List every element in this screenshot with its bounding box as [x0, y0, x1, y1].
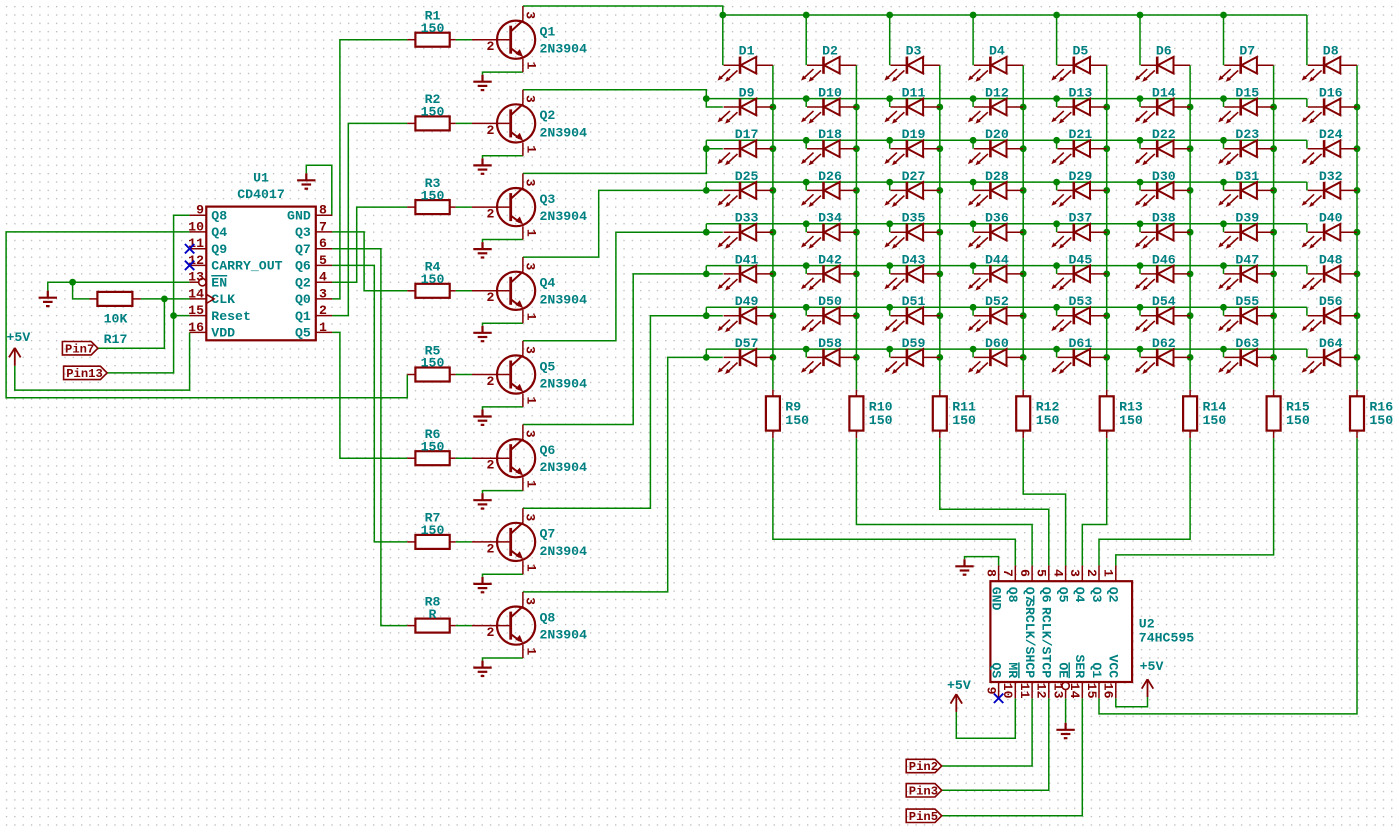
- junction column 1 row 7: [770, 312, 777, 319]
- no-connect U2 pin 9: [994, 694, 1003, 703]
- wire row 3 drop col 8: [1306, 140, 1308, 148]
- wire column drop to D5 anode row 1: [1056, 15, 1058, 65]
- U1 pin 13 (EN): [188, 270, 227, 291]
- svg-text:D30: D30: [1152, 169, 1176, 184]
- U2 pin 11 (SRCLK/SHCP): [1017, 599, 1037, 699]
- svg-text:Q4: Q4: [1072, 587, 1087, 603]
- wire row 5 drop col 4: [972, 224, 974, 232]
- LED D30: [1135, 169, 1190, 207]
- ground at Q1 emitter: [473, 75, 491, 90]
- svg-text:Q3: Q3: [1089, 587, 1104, 603]
- U2 pin 12 (RCLK/STCP): [1034, 607, 1054, 699]
- transistor Q1: [472, 6, 587, 72]
- svg-text:D29: D29: [1069, 169, 1093, 184]
- wire R5 to Q5 base: [456, 374, 472, 376]
- svg-text:150: 150: [421, 356, 445, 371]
- svg-text:14: 14: [188, 286, 204, 301]
- svg-text:Q4: Q4: [211, 225, 227, 240]
- svg-text:150: 150: [421, 439, 445, 454]
- svg-text:D44: D44: [985, 252, 1009, 267]
- wire U2 pin 10 to +5V: [956, 698, 1015, 738]
- LED D5: [1051, 44, 1106, 82]
- net label Pin2: [906, 759, 942, 774]
- svg-text:D4: D4: [989, 44, 1005, 59]
- svg-text:D33: D33: [735, 211, 759, 226]
- LED D6: [1135, 44, 1190, 82]
- svg-text:CLK: CLK: [211, 292, 235, 307]
- wire column 4 vertical to R12: [1022, 65, 1024, 390]
- svg-text:3: 3: [523, 262, 538, 270]
- svg-text:1: 1: [524, 564, 539, 572]
- svg-text:VDD: VDD: [211, 326, 235, 341]
- ground above U1: [297, 173, 315, 188]
- U2 pin 15 (Q1): [1084, 662, 1104, 698]
- svg-text:1: 1: [1101, 569, 1116, 577]
- svg-text:1: 1: [524, 229, 539, 237]
- LED D39: [1218, 211, 1273, 249]
- wire row 8 left riser: [705, 349, 707, 357]
- U1 pin 3 (Q0): [295, 286, 332, 307]
- svg-text:11: 11: [1017, 683, 1032, 699]
- svg-text:6: 6: [319, 236, 327, 251]
- svg-text:2N3904: 2N3904: [540, 125, 588, 140]
- LED D31: [1218, 169, 1273, 207]
- junction column 6 row 3: [1187, 145, 1194, 152]
- resistor R15: [1267, 390, 1310, 438]
- junction row 8 col 6: [1137, 346, 1144, 353]
- junction top bus col 1: [719, 12, 726, 19]
- svg-text:SRCLK/SHCP: SRCLK/SHCP: [1022, 599, 1037, 678]
- wire row 4 drop col 2: [805, 182, 807, 190]
- transistor Q6: [472, 425, 587, 491]
- svg-text:D55: D55: [1235, 294, 1259, 309]
- U2 pin 8 (GND): [983, 566, 1003, 611]
- ground at U2 pin 8: [955, 559, 973, 574]
- svg-text:D57: D57: [735, 336, 759, 351]
- svg-text:Q7: Q7: [540, 527, 556, 542]
- wire column 2 vertical to R10: [855, 65, 857, 390]
- LED D27: [884, 169, 939, 207]
- svg-text:1: 1: [524, 480, 539, 488]
- LED D43: [884, 252, 939, 290]
- wire row 4 drop col 5: [1056, 182, 1058, 190]
- junction row 3 col 5: [1053, 137, 1060, 144]
- junction column 8 row 2: [1354, 104, 1361, 111]
- junction column 2 row 6: [853, 271, 860, 278]
- ground at EN: [39, 291, 57, 306]
- junction row 8 col 7: [1220, 346, 1227, 353]
- svg-text:150: 150: [421, 188, 445, 203]
- svg-text:D3: D3: [906, 44, 922, 59]
- transistor Q7: [472, 508, 587, 574]
- junction row 7 col 2: [803, 304, 810, 311]
- wire top bus row 1: [723, 14, 1307, 16]
- resistor R11: [933, 390, 976, 438]
- wire row 2 drop col 6: [1139, 99, 1141, 107]
- wire Q1 emitter to ground: [483, 72, 523, 75]
- svg-text:2: 2: [486, 458, 494, 473]
- junction row 2 col 5: [1053, 95, 1060, 102]
- junction row 5 col 2: [803, 220, 810, 227]
- U2 pin 5 (Q6): [1034, 566, 1054, 603]
- junction column 4 row 5: [1020, 229, 1027, 236]
- svg-text:D48: D48: [1319, 252, 1343, 267]
- svg-text:D15: D15: [1235, 85, 1259, 100]
- wire Q5 emitter to ground: [483, 407, 523, 410]
- wire column drop to D2 anode row 1: [805, 15, 807, 65]
- svg-text:Q2: Q2: [1106, 587, 1121, 603]
- wire row 6 horizontal: [706, 265, 1307, 267]
- junction row 5 col 7: [1220, 220, 1227, 227]
- LED D50: [801, 294, 856, 332]
- wire R6 to Q6 base: [456, 457, 472, 459]
- svg-text:2: 2: [486, 207, 494, 222]
- wire row 3 drop col 6: [1139, 140, 1141, 148]
- junction column 4 row 6: [1020, 271, 1027, 278]
- +5V at U1 VDD: [7, 330, 31, 366]
- wire U1 pin 13 (EN) to ground: [48, 282, 190, 291]
- svg-text:D54: D54: [1152, 294, 1176, 309]
- wire row 4 drop col 4: [972, 182, 974, 190]
- junction top bus col 7: [1220, 12, 1227, 19]
- junction row 7 col 3: [886, 304, 893, 311]
- svg-text:1: 1: [524, 62, 539, 70]
- svg-text:3: 3: [523, 11, 538, 19]
- svg-text:4: 4: [319, 270, 327, 285]
- svg-text:150: 150: [1369, 413, 1393, 428]
- svg-text:Q1: Q1: [1089, 662, 1104, 678]
- junction column 8 row 7: [1354, 312, 1361, 319]
- svg-text:D62: D62: [1152, 336, 1176, 351]
- svg-text:2N3904: 2N3904: [540, 42, 588, 57]
- U1 pin 16 (VDD): [188, 320, 235, 341]
- junction row 4 col 7: [1220, 179, 1227, 186]
- wire R13 to U2 pin 3: [1082, 438, 1106, 565]
- svg-text:D56: D56: [1319, 294, 1343, 309]
- svg-text:5: 5: [1034, 569, 1049, 577]
- op-amp U1 body (CD4017): [206, 207, 315, 341]
- LED D24: [1302, 127, 1357, 165]
- svg-text:2N3904: 2N3904: [540, 209, 588, 224]
- svg-text:Pin2: Pin2: [909, 760, 938, 774]
- ground at Q4 emitter: [473, 326, 491, 341]
- ground at Q3 emitter: [473, 242, 491, 257]
- svg-text:Q7: Q7: [295, 242, 311, 257]
- svg-text:3: 3: [523, 513, 538, 521]
- wire R7 to Q7 base: [456, 541, 472, 543]
- junction column 3 row 3: [936, 145, 943, 152]
- junction column 2 row 5: [853, 229, 860, 236]
- junction row 3 col 3: [886, 137, 893, 144]
- wire column 8 vertical to R16: [1356, 65, 1358, 390]
- U2 pin 10 (MR): [1000, 662, 1020, 698]
- LED D61: [1051, 336, 1106, 374]
- LED D25: [718, 169, 773, 207]
- svg-text:2: 2: [319, 303, 327, 318]
- junction column 7 row 7: [1270, 312, 1277, 319]
- wire Q7 collector feed to row 7: [523, 316, 723, 509]
- wire row 5 drop col 7: [1223, 224, 1225, 232]
- svg-text:150: 150: [1286, 413, 1310, 428]
- junction row 5 col 5: [1053, 220, 1060, 227]
- wire row 6 drop col 4: [972, 266, 974, 274]
- svg-text:150: 150: [785, 413, 809, 428]
- LED D33: [718, 211, 773, 249]
- svg-text:2: 2: [486, 541, 494, 556]
- svg-text:D61: D61: [1069, 336, 1093, 351]
- svg-text:D18: D18: [818, 127, 842, 142]
- junction row 4 col 3: [886, 179, 893, 186]
- svg-text:D24: D24: [1319, 127, 1343, 142]
- LED D19: [884, 127, 939, 165]
- junction row 2 col 2: [803, 95, 810, 102]
- junction column 5 row 7: [1103, 312, 1110, 319]
- svg-text:13: 13: [1050, 683, 1065, 699]
- svg-text:D26: D26: [818, 169, 842, 184]
- ground at Q7 emitter: [473, 577, 491, 592]
- wire row 4 drop col 6: [1139, 182, 1141, 190]
- svg-text:150: 150: [1203, 413, 1227, 428]
- junction column 3 row 5: [936, 229, 943, 236]
- svg-text:16: 16: [188, 320, 204, 335]
- LED D12: [968, 85, 1023, 123]
- junction column 7 row 8: [1270, 354, 1277, 361]
- junction row 3 col 2: [803, 137, 810, 144]
- LED D62: [1135, 336, 1190, 374]
- svg-text:3: 3: [1067, 569, 1082, 577]
- LED D1: [718, 44, 773, 82]
- svg-text:1: 1: [524, 145, 539, 153]
- wire U2 pin 8 to GND: [965, 557, 999, 566]
- wire U1 pin 16 (VDD) to +5V: [15, 332, 190, 390]
- wire row 8 drop col 7: [1223, 349, 1225, 357]
- wire row 2 drop col 2: [805, 99, 807, 107]
- LED D8: [1302, 44, 1357, 82]
- wire EN branch to R17: [73, 282, 90, 299]
- svg-text:3: 3: [523, 430, 538, 438]
- junction column 6 row 4: [1187, 187, 1194, 194]
- junction column 4 row 4: [1020, 187, 1027, 194]
- svg-text:150: 150: [1036, 413, 1060, 428]
- wire row 7 drop col 6: [1139, 307, 1141, 315]
- LED D58: [801, 336, 856, 374]
- wire R8 to Q8 base: [456, 625, 472, 627]
- net label Pin13: [64, 366, 108, 381]
- svg-text:EN: EN: [211, 276, 227, 291]
- wire Q7 emitter to ground: [483, 574, 523, 577]
- svg-text:74HC595: 74HC595: [1139, 631, 1194, 646]
- +5V at U2 pin 16: [1140, 659, 1164, 697]
- junction column 6 row 5: [1187, 229, 1194, 236]
- svg-text:D41: D41: [735, 252, 759, 267]
- svg-text:150: 150: [421, 272, 445, 287]
- svg-text:Pin13: Pin13: [66, 367, 103, 381]
- wire Q3 collector feed to row 3: [523, 140, 706, 173]
- LED D49: [718, 294, 773, 332]
- svg-text:Q6: Q6: [1039, 587, 1054, 603]
- junction column 1 row 3: [770, 145, 777, 152]
- wire U1 pin 9 (Q8) to Reset net: [107, 215, 190, 373]
- U2 pin 13 (OE): [1050, 662, 1070, 698]
- svg-text:10: 10: [188, 219, 204, 234]
- wire R10 to U2 pin 6: [856, 438, 1032, 565]
- svg-text:2: 2: [486, 123, 494, 138]
- LED D42: [801, 252, 856, 290]
- LED D9: [718, 85, 773, 123]
- svg-text:GND: GND: [287, 209, 311, 224]
- wire R16 to U2 pin 15 (Q1): [1099, 438, 1357, 714]
- transistor Q5: [472, 341, 587, 407]
- U1 pin 15 (Reset): [188, 303, 251, 324]
- svg-text:3: 3: [523, 346, 538, 354]
- svg-text:Q8: Q8: [540, 610, 556, 625]
- wire Q6 emitter to ground: [483, 491, 523, 494]
- junction row 7 col 6: [1137, 304, 1144, 311]
- svg-text:MR: MR: [1005, 662, 1020, 678]
- svg-text:Q1: Q1: [540, 25, 556, 40]
- junction column 3 row 8: [936, 354, 943, 361]
- LED D11: [884, 85, 939, 123]
- wire row 2 drop col 3: [889, 99, 891, 107]
- svg-text:D5: D5: [1072, 44, 1088, 59]
- junction row 6 col 4: [970, 262, 977, 269]
- wire row 3 drop col 2: [805, 140, 807, 148]
- LED D38: [1135, 211, 1190, 249]
- wire row 8 drop col 2: [805, 349, 807, 357]
- LED D22: [1135, 127, 1190, 165]
- wire R17 to U1 pin 14 (CLK): [141, 298, 190, 300]
- transistor Q8: [472, 592, 587, 658]
- LED D46: [1135, 252, 1190, 290]
- LED D10: [801, 85, 856, 123]
- LED D37: [1051, 211, 1106, 249]
- junction column 1 row 6: [770, 271, 777, 278]
- wire Reset branch: [174, 315, 190, 317]
- LED D53: [1051, 294, 1106, 332]
- no-connect U1 pin 11: [185, 244, 194, 253]
- LED D40: [1302, 211, 1357, 249]
- junction column 2 row 8: [853, 354, 860, 361]
- wire column drop to D1 anode row 1: [722, 15, 724, 65]
- junction row 6 col 2: [803, 262, 810, 269]
- svg-text:D59: D59: [902, 336, 926, 351]
- wire row 4 drop col 3: [889, 182, 891, 190]
- junction EN / R17: [69, 279, 76, 286]
- junction row 8 col 4: [970, 346, 977, 353]
- svg-text:Q8: Q8: [1005, 587, 1020, 603]
- wire CLK branch to Pin7: [98, 299, 164, 348]
- junction row 5 col 3: [886, 220, 893, 227]
- junction column 8 row 8: [1354, 354, 1361, 361]
- svg-text:15: 15: [188, 303, 204, 318]
- junction row 3 col 6: [1137, 137, 1144, 144]
- svg-text:Q5: Q5: [295, 326, 311, 341]
- wire row 8 drop col 8: [1306, 349, 1308, 357]
- wire row 5 horizontal: [706, 223, 1307, 225]
- LED D52: [968, 294, 1023, 332]
- wire Q8 emitter to ground: [483, 658, 523, 661]
- LED D18: [801, 127, 856, 165]
- svg-text:D25: D25: [735, 169, 759, 184]
- junction row 5 col 4: [970, 220, 977, 227]
- junction column 2 row 2: [853, 104, 860, 111]
- LED D41: [718, 252, 773, 290]
- junction row 2 col 4: [970, 95, 977, 102]
- svg-text:D35: D35: [902, 211, 926, 226]
- LED D32: [1302, 169, 1357, 207]
- svg-text:Q6: Q6: [295, 259, 311, 274]
- svg-text:9: 9: [196, 203, 204, 218]
- svg-text:8: 8: [319, 203, 327, 218]
- LED D20: [968, 127, 1023, 165]
- wire row 2 drop col 5: [1056, 99, 1058, 107]
- junction row 2 col 6: [1137, 95, 1144, 102]
- LED D26: [801, 169, 856, 207]
- svg-text:D64: D64: [1319, 336, 1343, 351]
- LED D54: [1135, 294, 1190, 332]
- junction column 6 row 8: [1187, 354, 1194, 361]
- svg-text:Q5: Q5: [540, 359, 556, 374]
- junction column 5 row 2: [1103, 104, 1110, 111]
- svg-text:4: 4: [1050, 569, 1065, 577]
- wire row 4 drop col 7: [1223, 182, 1225, 190]
- no-connect U1 pin 12: [185, 261, 194, 270]
- junction column 7 row 4: [1270, 187, 1277, 194]
- transistor Q3: [472, 173, 587, 239]
- svg-text:D40: D40: [1319, 211, 1343, 226]
- junction top bus col 5: [1053, 12, 1060, 19]
- svg-text:OE: OE: [1055, 662, 1070, 678]
- resistor R7: [407, 511, 455, 549]
- wire row 6 drop col 5: [1056, 266, 1058, 274]
- U1 pin 7 (Q3): [295, 219, 332, 240]
- svg-text:D60: D60: [985, 336, 1009, 351]
- svg-text:7: 7: [1000, 569, 1015, 577]
- wire Q4 emitter to ground: [483, 323, 523, 326]
- svg-text:R: R: [429, 607, 437, 622]
- svg-text:3: 3: [523, 597, 538, 605]
- wire row 6 drop col 2: [805, 266, 807, 274]
- LED D15: [1218, 85, 1273, 123]
- wire row 6 drop col 6: [1139, 266, 1141, 274]
- junction column 7 row 5: [1270, 229, 1277, 236]
- junction row 3 col 7: [1220, 137, 1227, 144]
- U1 pin 12 (CARRY_OUT): [188, 253, 282, 274]
- junction column 6 row 2: [1187, 104, 1194, 111]
- wire U1 pin 10 (Q4) to R5: [6, 232, 407, 398]
- junction column 8 row 3: [1354, 145, 1361, 152]
- junction row 4 col 6: [1137, 179, 1144, 186]
- svg-text:D50: D50: [818, 294, 842, 309]
- svg-text:U2: U2: [1139, 617, 1155, 632]
- wire column 7 vertical to R15: [1273, 65, 1275, 390]
- svg-text:Q1: Q1: [295, 309, 311, 324]
- wire column 6 vertical to R14: [1189, 65, 1191, 390]
- svg-text:150: 150: [1119, 413, 1143, 428]
- svg-text:D58: D58: [818, 336, 842, 351]
- svg-text:D19: D19: [902, 127, 926, 142]
- svg-text:D42: D42: [818, 252, 842, 267]
- wire U1 pin 5 (Q6) to R7: [332, 265, 407, 542]
- junction row 7 col 7: [1220, 304, 1227, 311]
- junction column 7 row 2: [1270, 104, 1277, 111]
- svg-text:D39: D39: [1235, 211, 1259, 226]
- svg-text:3: 3: [523, 179, 538, 187]
- svg-text:150: 150: [421, 105, 445, 120]
- net label Pin7: [62, 342, 98, 357]
- svg-text:Q2: Q2: [540, 108, 556, 123]
- svg-text:D7: D7: [1239, 44, 1255, 59]
